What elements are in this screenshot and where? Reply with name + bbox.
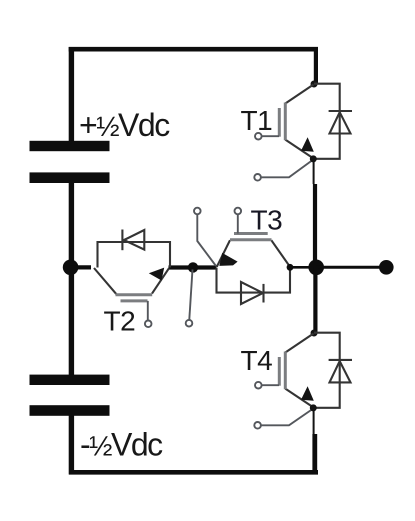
node midpoint junction dot: [63, 260, 79, 276]
transistor T3 aux emitter lead: [197, 214, 216, 266]
transistor T4 diode loop wire: [314, 333, 340, 408]
transistor T2 diode loop wire: [98, 242, 171, 268]
wire T1 emitter to output node: [313, 184, 317, 268]
node T1 emitter junction dot: [310, 155, 317, 162]
transistor T2 emitter arrow: [149, 268, 164, 281]
terminal circle T3 aux emitter: [194, 208, 201, 215]
transistor T1 aux emitter lead: [261, 159, 314, 177]
transistor T1 channel bar: [284, 103, 287, 141]
node T4 emitter junction dot: [310, 404, 317, 411]
wire T4 emitter thin segment: [313, 408, 315, 434]
transistor T1 gate bar: [278, 108, 281, 137]
diode D2 (antiparallel of T2): [122, 230, 144, 251]
capacitor C2 top plate: [30, 375, 110, 385]
wire bottom rail: [69, 470, 318, 475]
wire output node to T4 collector: [313, 267, 317, 332]
wire right vertical top (rail to T1 collector): [314, 47, 318, 84]
transistor T4 emitter arrow: [301, 386, 314, 401]
transistor T3 channel bar: [230, 238, 272, 241]
wire output: [316, 266, 386, 269]
transistor T3 gate lead: [237, 214, 239, 233]
node T3 collector junction dot: [287, 264, 294, 271]
transistor T2 gate bar: [121, 299, 148, 302]
transistor T1 emitter arrow: [301, 137, 314, 152]
terminal circle T4 aux emitter: [254, 422, 261, 429]
transistor T1 body: [285, 85, 313, 159]
capacitor C1 top plate: [30, 141, 110, 151]
output terminal dot: [379, 260, 394, 275]
terminal circle T2 gate: [145, 321, 152, 328]
terminal circle T4 gate: [255, 382, 262, 389]
node between T2 and T3: [188, 262, 198, 272]
wire T2 emitter bus (junction to T3): [169, 265, 217, 269]
wire left vertical upper: [69, 47, 74, 142]
terminal circle T2 aux emitter: [186, 320, 193, 327]
transistor T2 gate lead: [147, 301, 149, 321]
transistor T2 channel bar: [116, 293, 153, 296]
node T1 collector junction dot: [311, 81, 318, 88]
wire T4 emitter to bottom rail: [312, 434, 317, 475]
svg-text:T4: T4: [241, 345, 273, 376]
wire midpoint to T2: [70, 265, 91, 269]
terminal circle T1 gate: [255, 133, 262, 140]
node output junction dot: [308, 260, 324, 276]
svg-text:T1: T1: [241, 105, 273, 136]
diode D3 (antiparallel of T3): [241, 282, 264, 304]
transistor T1 diode loop wire: [314, 84, 340, 159]
node T4 collector junction dot: [311, 330, 318, 337]
transistor T2 aux emitter lead: [189, 270, 192, 320]
svg-text:T2: T2: [104, 306, 136, 337]
transistor T3 gate bar: [234, 232, 268, 235]
transistor T2 body: [94, 268, 169, 294]
svg-text:+½Vdc: +½Vdc: [79, 107, 170, 143]
transistor T3 diode loop wire: [217, 268, 291, 293]
wire left vertical lower: [69, 416, 74, 475]
wire T3 collector to output node: [290, 266, 316, 269]
terminal circle T1 aux emitter: [254, 174, 261, 181]
wire left vertical middle: [69, 183, 74, 376]
transistor T4 channel bar: [284, 352, 287, 390]
transistor T3 emitter arrow: [219, 253, 237, 266]
diode D4 (antiparallel of T4): [329, 360, 352, 383]
diode D1 (antiparallel of T1): [329, 111, 352, 134]
transistor T4 body: [285, 334, 313, 408]
transistor T4 gate lead: [262, 384, 279, 386]
transistor T3 body: [217, 240, 290, 267]
wire top rail: [69, 47, 318, 52]
transistor T4 aux emitter lead: [261, 408, 314, 425]
transistor T1 gate lead: [262, 135, 279, 137]
capacitor C1 bottom plate: [30, 172, 110, 183]
wire T1 emitter thin segment: [313, 159, 315, 184]
capacitor C2 bottom plate: [30, 405, 110, 416]
terminal circle T3 gate: [235, 208, 242, 215]
svg-text:-½Vdc: -½Vdc: [80, 427, 163, 463]
transistor T4 gate bar: [278, 357, 281, 386]
svg-text:T3: T3: [251, 205, 283, 236]
